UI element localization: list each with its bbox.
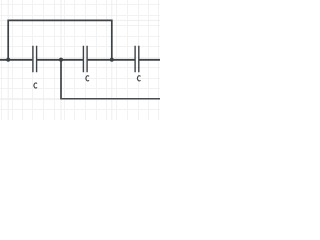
capacitor C1 plates <box>33 46 37 73</box>
wire between capacitor C2 and capacitor C3 <box>88 59 135 61</box>
node guide column x=61 <box>60 0 62 120</box>
label C for capacitor C2 <box>86 76 89 81</box>
label C for capacitor C3 <box>138 76 141 81</box>
wire top loop from node A up over to node B <box>8 20 112 59</box>
wire left lead into capacitor C1 <box>0 59 32 61</box>
wire bottom branch from node C down and right <box>60 60 62 99</box>
node C junction dot <box>59 58 63 62</box>
node B junction dot <box>110 58 114 62</box>
capacitor C2 plates <box>83 46 87 73</box>
node guide column x=112 <box>111 0 113 120</box>
node guide row y=99 <box>0 98 160 100</box>
node guide row y=20 <box>0 19 160 21</box>
node guide column x=8 <box>7 0 9 120</box>
capacitor C3 plates <box>135 46 139 73</box>
wire bottom rail to right edge <box>60 98 160 100</box>
label C for capacitor C1 <box>34 83 37 88</box>
wire between capacitor C1 and capacitor C2 <box>37 59 83 61</box>
wire right lead out of capacitor C3 <box>139 59 160 61</box>
node A junction dot <box>6 58 10 62</box>
